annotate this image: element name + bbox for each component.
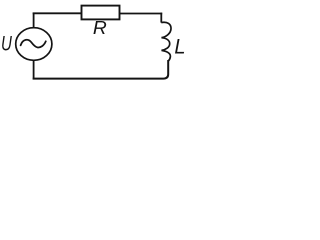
wire: left vertical (bottom rail to source)	[33, 61, 35, 80]
wire: top rail right segment	[120, 13, 163, 15]
wire: right vertical below inductor, rounded corner, bottom rail	[33, 60, 169, 79]
inductor L (three loops)	[161, 22, 171, 61]
ac source sine symbol	[21, 40, 46, 48]
svg-text:L: L	[174, 35, 185, 59]
resistor R	[82, 6, 120, 20]
wire: top rail left segment	[33, 12, 82, 14]
ac source U (circle)	[16, 28, 52, 61]
wire: right vertical into inductor	[160, 13, 162, 23]
wire: left vertical (source to top rail)	[33, 13, 35, 28]
svg-text:R: R	[93, 18, 107, 38]
svg-text:U: U	[1, 31, 12, 55]
